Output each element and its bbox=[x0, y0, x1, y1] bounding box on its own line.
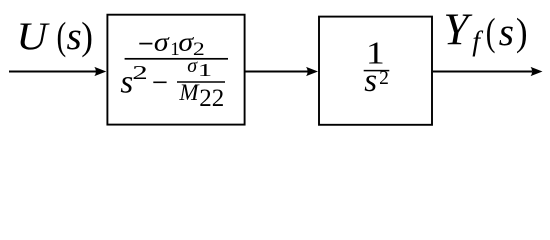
svg-text:s: s bbox=[364, 63, 377, 99]
svg-text:(: ( bbox=[486, 11, 496, 54]
svg-text:2: 2 bbox=[132, 61, 148, 83]
svg-text:s: s bbox=[67, 15, 82, 58]
svg-text:22: 22 bbox=[199, 85, 224, 112]
svg-text:f: f bbox=[472, 27, 483, 58]
svg-text:): ) bbox=[516, 11, 528, 54]
svg-text:s: s bbox=[499, 11, 514, 54]
svg-text:2: 2 bbox=[379, 68, 389, 89]
svg-text:σ: σ bbox=[154, 28, 170, 57]
svg-text:1: 1 bbox=[198, 61, 212, 80]
svg-text:U: U bbox=[16, 14, 49, 58]
svg-text:σ: σ bbox=[187, 55, 198, 77]
svg-text:(: ( bbox=[57, 15, 67, 58]
svg-text:M: M bbox=[178, 80, 200, 105]
svg-text:): ) bbox=[81, 15, 93, 58]
svg-text:Y: Y bbox=[443, 5, 473, 55]
